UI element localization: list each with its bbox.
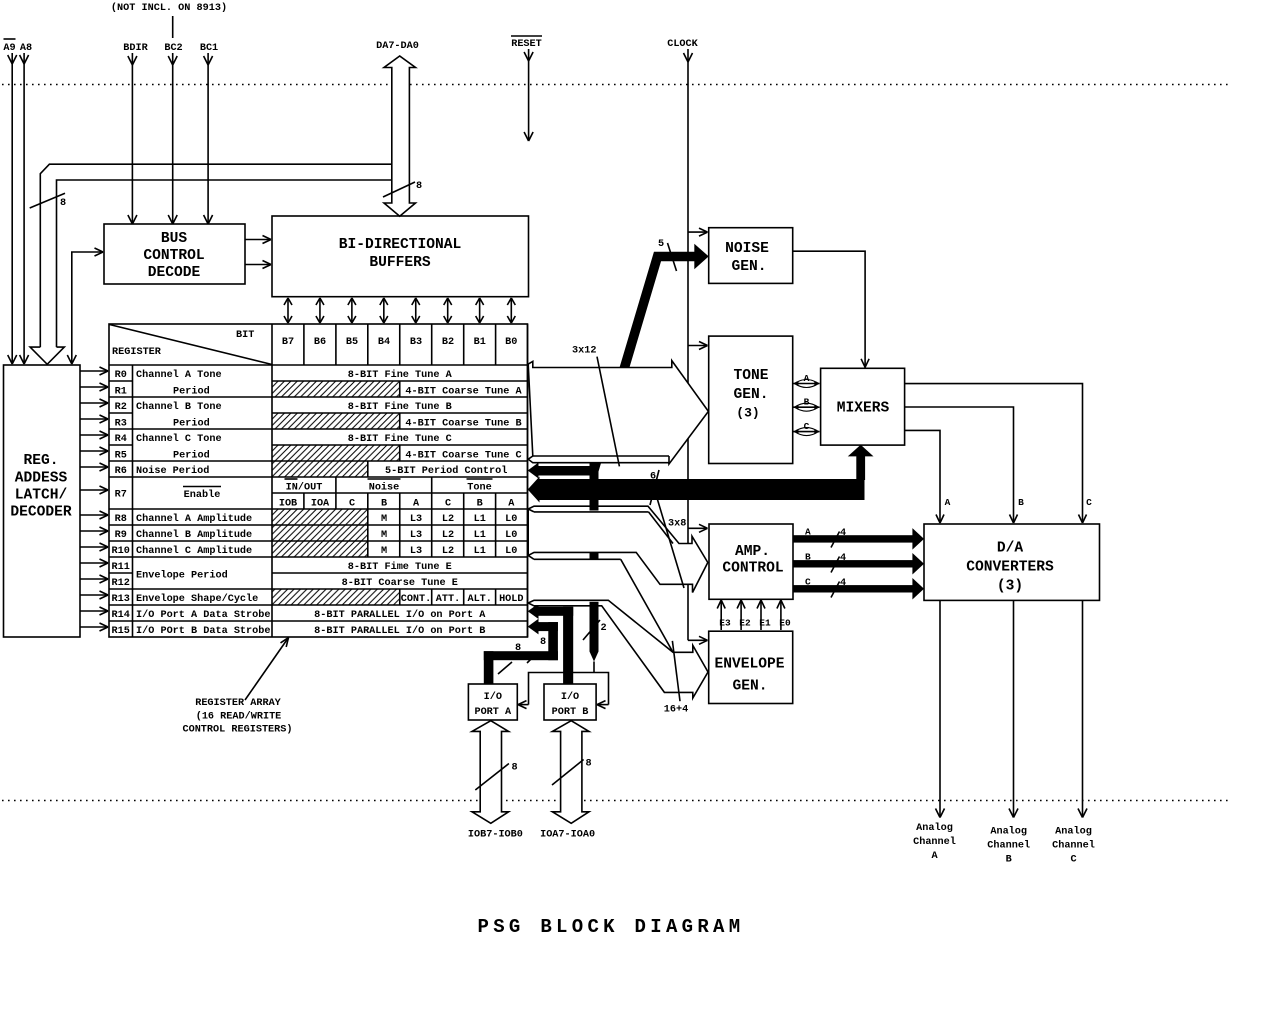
svg-text:L1: L1 <box>474 514 486 525</box>
svg-text:I/O POrt B Data Strobe: I/O POrt B Data Strobe <box>136 625 271 637</box>
table horizontal lines <box>109 364 528 366</box>
svg-text:Channel C Amplitude: Channel C Amplitude <box>136 545 252 557</box>
wire data bus to reg latch (upper) <box>40 164 392 347</box>
svg-text:R1: R1 <box>115 387 127 398</box>
svg-text:ADDESS: ADDESS <box>15 471 68 487</box>
svg-text:Period: Period <box>173 450 210 462</box>
wire data bus to reg latch (lower) <box>57 180 392 347</box>
svg-text:8: 8 <box>512 763 518 774</box>
wire BDIR <box>131 53 133 224</box>
svg-text:A: A <box>805 527 811 538</box>
i/o port A box U10 <box>468 684 517 720</box>
svg-text:L1: L1 <box>474 546 486 557</box>
wire from note to BC2 <box>172 16 174 38</box>
svg-text:IOB7-IOB0: IOB7-IOB0 <box>468 830 523 841</box>
svg-text:C: C <box>805 577 811 588</box>
svg-text:B: B <box>805 552 811 563</box>
wire A8 <box>23 53 25 364</box>
svg-text:I/O: I/O <box>561 691 579 703</box>
svg-text:BC2: BC2 <box>164 43 182 54</box>
svg-text:3x8: 3x8 <box>668 519 686 530</box>
svg-text:REG.: REG. <box>23 453 58 469</box>
svg-text:R0: R0 <box>115 370 127 381</box>
svg-text:R2: R2 <box>115 402 127 413</box>
svg-text:A9: A9 <box>3 43 15 54</box>
svg-text:16+4: 16+4 <box>664 705 688 716</box>
svg-text:Channel A Tone: Channel A Tone <box>136 369 222 381</box>
wire decode to buffers upper <box>245 239 271 241</box>
hatched cell R8 <box>272 509 368 525</box>
svg-text:6: 6 <box>650 472 656 483</box>
svg-text:R5: R5 <box>115 451 127 462</box>
svg-text:B: B <box>477 499 483 510</box>
svg-text:BUFFERS: BUFFERS <box>369 255 431 271</box>
bus control decode box U1 <box>104 224 245 284</box>
wire reg latch to bus decode <box>72 252 103 364</box>
svg-text:M: M <box>381 530 387 541</box>
bus amp control to d/a thick A B C <box>793 528 924 550</box>
svg-text:BIT: BIT <box>236 330 254 341</box>
svg-text:Period: Period <box>173 386 210 398</box>
svg-text:L0: L0 <box>505 514 517 525</box>
svg-text:R6: R6 <box>115 466 127 477</box>
svg-text:PORT A: PORT A <box>474 707 512 718</box>
svg-text:Period: Period <box>173 418 210 430</box>
svg-text:8: 8 <box>60 198 66 209</box>
svg-text:I/O Port A Data Strobe: I/O Port A Data Strobe <box>136 609 271 621</box>
svg-text:R7: R7 <box>115 490 127 501</box>
svg-text:PORT B: PORT B <box>552 707 589 718</box>
svg-text:8: 8 <box>586 759 592 770</box>
bus vertical segment above (noise join) <box>590 462 599 511</box>
svg-text:4-BIT Coarse Tune C: 4-BIT Coarse Tune C <box>405 451 521 462</box>
svg-text:IOA7-IOA0: IOA7-IOA0 <box>540 830 595 841</box>
d/a converters box U9 <box>924 524 1100 600</box>
svg-text:8-BIT Fine Tune C: 8-BIT Fine Tune C <box>348 433 452 445</box>
bus width slash 8 on DA bus <box>383 182 415 197</box>
svg-text:Noise: Noise <box>369 482 400 494</box>
svg-text:E3: E3 <box>719 618 731 629</box>
bus R7 enable thick bar + arrowhead <box>528 477 540 503</box>
svg-text:4: 4 <box>840 528 846 539</box>
svg-text:Analog: Analog <box>1055 826 1092 838</box>
svg-text:ALT.: ALT. <box>467 594 491 605</box>
svg-text:L2: L2 <box>442 546 454 557</box>
bus riser into mixers <box>856 456 865 481</box>
svg-text:L2: L2 <box>442 514 454 525</box>
svg-text:ENVELOPE: ENVELOPE <box>714 657 784 673</box>
svg-text:Enable: Enable <box>184 489 221 501</box>
svg-text:B7: B7 <box>282 337 294 348</box>
svg-text:4: 4 <box>840 578 846 589</box>
svg-text:Channel B Amplitude: Channel B Amplitude <box>136 529 252 541</box>
svg-text:5: 5 <box>658 239 664 250</box>
svg-text:Envelope Period: Envelope Period <box>136 570 228 582</box>
svg-text:B0: B0 <box>505 337 517 348</box>
svg-text:GEN.: GEN. <box>733 387 768 403</box>
wire CLOCK <box>687 49 689 544</box>
svg-text:TONE: TONE <box>733 368 768 384</box>
svg-text:CONTROL: CONTROL <box>143 248 204 264</box>
svg-text:Channel C Tone: Channel C Tone <box>136 433 222 445</box>
tone gen box U5 <box>709 336 793 463</box>
svg-text:R8: R8 <box>115 514 127 525</box>
wires mixers to d/a A B C <box>905 384 1083 523</box>
svg-text:REGISTER ARRAY: REGISTER ARRAY <box>195 698 281 709</box>
svg-text:B: B <box>381 499 387 510</box>
bus 2-bit to I/O ports <box>590 602 599 652</box>
register array table <box>109 324 528 637</box>
bus I/O port A output fat arrow <box>472 721 509 824</box>
svg-text:BUS: BUS <box>161 231 188 247</box>
svg-text:BDIR: BDIR <box>123 43 148 54</box>
svg-text:8-BIT PARALLEL I/O on Port A: 8-BIT PARALLEL I/O on Port A <box>314 609 486 621</box>
svg-text:R15: R15 <box>112 626 130 637</box>
svg-text:R10: R10 <box>112 546 130 557</box>
wires d/a to analog channels <box>936 600 945 817</box>
svg-text:Tone: Tone <box>467 483 491 494</box>
wires buffers to register bit columns (8 double arrows) <box>284 298 292 323</box>
svg-text:HOLD: HOLD <box>499 594 523 605</box>
svg-text:RESET: RESET <box>511 39 542 50</box>
svg-text:DECODER: DECODER <box>10 505 72 521</box>
reg address latch/decoder box U3 <box>4 365 81 637</box>
bus R14 to I/O port B <box>528 604 539 620</box>
svg-text:Noise Period: Noise Period <box>136 465 209 477</box>
svg-text:Channel B Tone: Channel B Tone <box>136 401 222 413</box>
svg-text:R14: R14 <box>112 610 130 621</box>
bi-directional buffers box U2 <box>272 216 529 297</box>
hatched cell R6 <box>272 461 368 477</box>
svg-text:D/A: D/A <box>997 541 1024 557</box>
svg-text:R13: R13 <box>112 594 130 605</box>
svg-text:CONVERTERS: CONVERTERS <box>966 560 1054 576</box>
svg-text:M: M <box>381 546 387 557</box>
svg-text:8-BIT Coarse Tune E: 8-BIT Coarse Tune E <box>342 578 458 589</box>
svg-text:L1: L1 <box>474 530 486 541</box>
svg-text:C: C <box>349 499 355 510</box>
svg-text:MIXERS: MIXERS <box>837 401 890 417</box>
svg-text:CONTROL: CONTROL <box>722 561 783 577</box>
svg-text:B5: B5 <box>346 337 358 348</box>
wire BC1 <box>207 53 209 224</box>
svg-text:4: 4 <box>840 553 846 564</box>
wire decode to buffers lower <box>245 264 271 266</box>
noise gen box U4 <box>709 228 793 284</box>
svg-text:Analog: Analog <box>990 826 1027 838</box>
bus I/O port B output fat arrow <box>552 721 589 824</box>
svg-text:Channel: Channel <box>987 840 1030 852</box>
svg-text:B: B <box>804 397 810 408</box>
svg-text:L3: L3 <box>410 530 422 541</box>
svg-text:CONT.: CONT. <box>401 594 432 605</box>
svg-text:R12: R12 <box>112 578 130 589</box>
svg-text:(3): (3) <box>997 579 1023 595</box>
svg-text:8: 8 <box>416 181 422 192</box>
hatched cell R1 <box>272 381 400 397</box>
svg-text:A: A <box>931 851 938 862</box>
svg-text:A8: A8 <box>20 43 32 54</box>
svg-text:L3: L3 <box>410 546 422 557</box>
svg-text:A: A <box>508 499 515 510</box>
svg-text:CLOCK: CLOCK <box>667 39 698 50</box>
svg-text:B: B <box>1006 855 1012 866</box>
bus R15 to I/O port A <box>528 619 539 635</box>
svg-text:Envelope Shape/Cycle: Envelope Shape/Cycle <box>136 593 258 605</box>
big bus ribbon to amp control (3x8) <box>528 506 708 592</box>
svg-text:NOISE: NOISE <box>725 241 769 257</box>
envelope gen box U8 <box>709 631 793 703</box>
svg-text:(NOT INCL. ON 8913): (NOT INCL. ON 8913) <box>111 2 227 14</box>
port bus width slashes 8 <box>498 662 512 674</box>
svg-text:E1: E1 <box>759 618 771 629</box>
svg-text:M: M <box>381 514 387 525</box>
svg-text:E0: E0 <box>779 618 791 629</box>
wire A9 <box>11 53 13 364</box>
svg-text:C: C <box>1086 497 1092 508</box>
svg-text:8: 8 <box>515 643 521 654</box>
wires envelope gen to amp control E3-E0 <box>717 600 725 630</box>
svg-text:IOB: IOB <box>279 499 297 510</box>
svg-text:(3): (3) <box>736 406 759 421</box>
i/o port B box U11 <box>544 684 596 720</box>
svg-text:C: C <box>804 421 810 432</box>
table right edge redraw <box>527 324 529 637</box>
svg-text:A: A <box>804 373 810 384</box>
svg-text:Channel: Channel <box>913 836 956 848</box>
svg-text:IN/OUT: IN/OUT <box>286 482 323 494</box>
wire 2-bus to port right edges <box>529 673 609 705</box>
svg-text:ATT.: ATT. <box>436 594 460 605</box>
svg-text:B: B <box>1018 497 1024 508</box>
svg-text:Channel: Channel <box>1052 840 1095 852</box>
svg-text:BC1: BC1 <box>200 43 218 54</box>
svg-text:L0: L0 <box>505 530 517 541</box>
svg-text:8-BIT Fime Tune E: 8-BIT Fime Tune E <box>348 561 452 573</box>
svg-text:CONTROL REGISTERS): CONTROL REGISTERS) <box>182 724 292 736</box>
svg-text:LATCH/: LATCH/ <box>15 488 68 504</box>
wire clock to tone gen <box>688 345 708 347</box>
svg-text:R3: R3 <box>115 419 127 430</box>
bus width slash 2 <box>583 620 600 640</box>
svg-text:R9: R9 <box>115 530 127 541</box>
svg-text:C: C <box>1070 855 1076 866</box>
svg-text:L2: L2 <box>442 530 454 541</box>
wire noise gen to mixers <box>793 251 865 367</box>
svg-text:B1: B1 <box>474 337 486 348</box>
svg-text:8-BIT PARALLEL I/O on Port B: 8-BIT PARALLEL I/O on Port B <box>314 625 485 637</box>
svg-text:8-BIT Fine Tune B: 8-BIT Fine Tune B <box>348 401 452 413</box>
bus R6 bar + arrowhead <box>528 463 539 479</box>
svg-text:L3: L3 <box>410 514 422 525</box>
big bus wedge to envelope gen (16+4) <box>528 600 708 698</box>
svg-text:Analog: Analog <box>916 822 953 834</box>
svg-text:AMP.: AMP. <box>735 544 770 560</box>
svg-text:A: A <box>945 497 951 508</box>
svg-text:L0: L0 <box>505 546 517 557</box>
svg-text:A: A <box>413 499 420 510</box>
svg-text:REGISTER: REGISTER <box>112 347 162 358</box>
svg-text:2: 2 <box>601 623 607 634</box>
svg-text:BI-DIRECTIONAL: BI-DIRECTIONAL <box>339 237 462 253</box>
wire clock to amp control <box>688 527 708 529</box>
bus vertical segment across lower band <box>590 553 599 559</box>
bus width slash 16+4 <box>672 641 680 701</box>
header diagonal <box>110 325 273 365</box>
svg-text:R4: R4 <box>115 434 127 445</box>
svg-text:I/O: I/O <box>484 691 502 703</box>
svg-text:5-BIT Period Control: 5-BIT Period Control <box>385 465 507 477</box>
dotted separator line bottom <box>2 800 1232 802</box>
amp control box U7 <box>709 524 793 599</box>
wires tone gen to mixers A B C (bidirectional lens arrows) <box>793 380 820 388</box>
dotted separator line top <box>2 84 1232 86</box>
mixers box U6 <box>821 368 905 445</box>
svg-text:B3: B3 <box>410 337 422 348</box>
wire RESET <box>528 49 530 141</box>
fat arrowhead into reg latch <box>30 347 64 364</box>
svg-text:4-BIT Coarse Tune A: 4-BIT Coarse Tune A <box>405 387 522 398</box>
hatched cell R9 <box>272 525 368 541</box>
hatched cell R10 <box>272 541 368 557</box>
svg-text:B4: B4 <box>378 337 390 348</box>
svg-text:B2: B2 <box>442 337 454 348</box>
svg-text:8: 8 <box>540 637 546 648</box>
wire clock to envelope gen <box>688 639 708 641</box>
svg-text:4-BIT Coarse Tune B: 4-BIT Coarse Tune B <box>405 419 521 430</box>
wire BC2 <box>172 53 174 224</box>
svg-text:GEN.: GEN. <box>731 259 766 275</box>
svg-text:E2: E2 <box>739 618 751 629</box>
svg-text:B6: B6 <box>314 337 326 348</box>
annotation arrow to table <box>245 638 289 701</box>
svg-text:IOA: IOA <box>311 499 330 510</box>
svg-text:Channel A Amplitude: Channel A Amplitude <box>136 513 252 525</box>
bus width slash 8 <box>30 193 65 208</box>
hatched cell R5 <box>272 445 400 461</box>
wires reg latch to register rows (16 arrows) <box>80 367 108 375</box>
big bus arrow table to tone gen (3x12) <box>528 361 708 464</box>
svg-text:GEN.: GEN. <box>732 679 767 695</box>
svg-text:(16 READ/WRITE: (16 READ/WRITE <box>196 711 282 723</box>
table outer border <box>109 324 528 637</box>
long edge to envelope wedge <box>621 559 673 652</box>
hatched cell R13 <box>272 589 400 605</box>
svg-text:PSG BLOCK DIAGRAM: PSG BLOCK DIAGRAM <box>478 916 745 938</box>
bus DA7-DA0 double fat arrow <box>384 56 416 216</box>
svg-text:DECODE: DECODE <box>148 265 201 281</box>
table vertical lines <box>132 365 134 637</box>
bus noise 5-bit thick (R6 to noise gen) <box>594 257 695 471</box>
svg-text:C: C <box>445 499 451 510</box>
wire clock to noise gen <box>688 231 708 233</box>
svg-text:DA7-DA0: DA7-DA0 <box>376 41 419 52</box>
hatched cell R3 <box>272 413 400 429</box>
svg-text:R11: R11 <box>112 562 130 573</box>
svg-text:8-BIT Fine Tune A: 8-BIT Fine Tune A <box>348 369 453 381</box>
svg-text:3x12: 3x12 <box>572 346 596 357</box>
